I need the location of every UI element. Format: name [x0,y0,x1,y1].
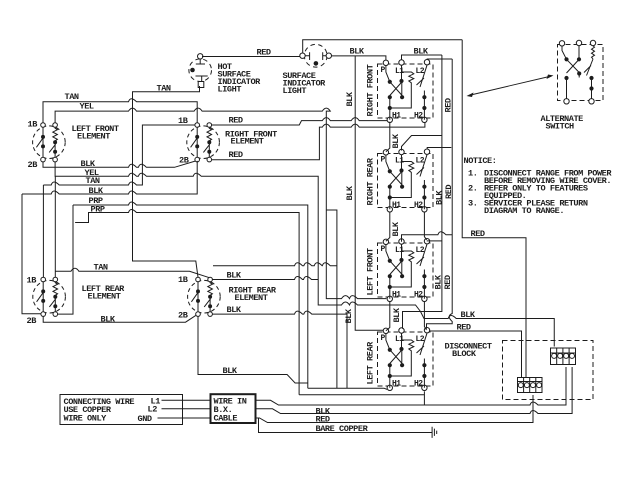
wire TAN 1B left front to 1B right front [43,99,197,123]
label LEFT FRONT ELEMENT [72,124,119,142]
svg-text:ELEMENT: ELEMENT [77,132,110,142]
switch RIGHT FRONT [378,60,434,123]
label HOT SURFACE INDICATOR LIGHT [218,62,262,95]
svg-text:1B: 1B [178,275,188,285]
svg-text:2B: 2B [28,160,38,170]
wire right rear T wire [212,277,318,280]
svg-text:PRP: PRP [91,205,105,215]
svg-text:1.: 1. [468,169,477,179]
wire P right rear riser to red node [386,122,390,152]
svg-text:RED: RED [457,323,471,333]
label ALTERNATE SWITCH [541,114,584,132]
svg-text:YEL: YEL [80,102,94,112]
svg-text:RED: RED [444,98,454,112]
wire BLK vertical right bus [403,55,442,329]
wire in bx cable box [211,394,256,423]
wire BLK to disconnect block [421,312,555,347]
wire BLK vertical bus mid [355,56,383,330]
svg-text:2.: 2. [468,184,477,194]
svg-text:RED: RED [229,150,243,160]
svg-text:LEFT FRONT: LEFT FRONT [366,248,376,295]
svg-text:GND: GND [138,414,152,424]
wire L1 right rear riser [402,136,442,151]
svg-text:TAN: TAN [157,84,171,94]
svg-text:LIGHT: LIGHT [283,86,307,96]
svg-text:TAN: TAN [65,92,79,102]
svg-text:ELEMENT: ELEMENT [235,293,268,303]
connecting wire box [60,395,183,425]
svg-text:RED: RED [229,116,243,126]
svg-text:TAN: TAN [86,176,100,186]
wire top bus down right side [462,40,526,378]
wire vertical left column to left rear T2 [54,176,56,277]
wire stub to vertical 336 [326,210,337,388]
svg-text:RIGHT REAR: RIGHT REAR [366,157,376,205]
svg-text:ELEMENT: ELEMENT [231,136,264,146]
arrow pointing between switch and alternate switch [467,75,554,98]
wire PRP bus second [75,210,299,395]
svg-text:LEFT REAR: LEFT REAR [366,341,376,385]
notice text block [464,156,613,216]
wire RED bottom bus [256,367,573,414]
element LEFT REAR ELEMENT [33,277,66,316]
svg-text:DIAGRAM TO RANGE.: DIAGRAM TO RANGE. [484,206,564,216]
wire H2 left rear down to BLK bottom bus [423,391,425,405]
wire BLK bus second [22,161,197,314]
wire mid horizontal to vertical 336 [213,263,337,266]
svg-text:BLK: BLK [392,307,402,322]
svg-text:BARE COPPER: BARE COPPER [316,424,369,434]
svg-text:BLK: BLK [345,185,355,200]
switch LEFT REAR [378,328,434,391]
label DISCONNECT BLOCK [445,342,492,360]
disconnect block dashed box [503,341,594,400]
element RIGHT REAR ELEMENT [188,277,221,316]
svg-text:BLK: BLK [414,47,429,57]
wire BLK bottom bus [256,367,567,405]
wire bare copper to lower block [256,395,534,423]
wire H2 left front down to left rear L2 node [424,302,426,331]
wire L2 left front riser [427,240,442,242]
svg-text:2B: 2B [178,311,188,321]
svg-text:L2: L2 [148,405,158,415]
svg-text:ELEMENT: ELEMENT [88,292,121,302]
element LEFT FRONT ELEMENT [33,123,66,162]
svg-text:2B: 2B [27,316,37,326]
svg-text:BLK: BLK [227,271,242,281]
svg-text:BLK: BLK [461,310,476,320]
svg-text:BLK: BLK [223,366,238,376]
svg-text:NOTICE:: NOTICE: [464,156,497,166]
svg-text:CABLE: CABLE [214,414,238,424]
svg-text:LIGHT: LIGHT [218,85,242,95]
wire TAN lamp1 down-left and long vertical [133,86,200,277]
wire YEL left front B2 down bus to left rear T2 [55,162,420,312]
element RIGHT FRONT ELEMENT [187,123,220,162]
wire BLK L1 riser right front to vertical bus [402,55,442,60]
svg-text:RED: RED [444,185,454,199]
wire TAN bus [43,125,195,277]
wire L2 right rear riser [427,148,451,150]
indicator lamp SURFACE INDICATOR LIGHT [300,44,332,67]
wire RED lamp to lamp [202,56,300,58]
wire GND link [158,417,211,419]
switch RIGHT REAR [378,149,434,212]
svg-text:WIRE ONLY: WIRE ONLY [64,414,108,424]
label RIGHT FRONT ELEMENT [225,130,277,147]
wire H2 right rear down to RED wire [424,212,426,240]
wire RED right front 1B to H1 of right front switch [212,118,390,125]
ground symbol [432,427,437,438]
wire RED vertical right bus [427,59,453,329]
svg-text:BLK: BLK [434,274,444,289]
svg-text:BLK: BLK [344,308,354,323]
svg-text:RED: RED [443,275,453,289]
svg-text:BLK: BLK [101,315,116,325]
wire TAN left rear T2 branch to right rear [55,268,209,277]
wire lamp2 up and over to right column [303,40,463,53]
svg-text:BLK: BLK [89,186,104,196]
terminal block lower [518,378,543,393]
switch LEFT FRONT [378,239,434,302]
wire L1 left front riser [402,232,453,242]
label RIGHT REAR ELEMENT [229,286,277,304]
wire L2 link [162,408,211,410]
wire right rear B wire [212,311,347,388]
wire BLK lamp2 to P of right front switch [331,56,386,62]
wire L2 riser right front to red vertical bus [427,58,452,61]
indicator lamp HOT SURFACE INDICATOR LIGHT [189,54,212,88]
svg-text:1B: 1B [27,276,37,286]
wire right rear B1 down and over to H1 left rear [198,316,424,394]
wire H1 right rear down to P left front [386,212,390,241]
svg-text:SWITCH: SWITCH [546,122,575,132]
wire YEL riser left front T2 over to mid vertical down to H1 left front [55,108,386,299]
svg-text:RIGHT FRONT: RIGHT FRONT [366,64,376,116]
label SURFACE INDICATOR LIGHT [283,71,327,96]
terminal block upper [551,348,576,365]
wire H1 left front down note [386,302,390,331]
wire BLK left rear B1 to right rear B1 [43,315,196,322]
label LEFT REAR ELEMENT [82,284,126,302]
wire BLK left front B1 to right front B1 [43,161,195,167]
svg-text:1B: 1B [28,119,38,129]
wire BARE COPPER with ground [259,418,433,433]
svg-text:BLK: BLK [227,305,242,315]
wire L1 link [162,399,211,401]
svg-text:BLK: BLK [345,91,355,106]
svg-text:TAN: TAN [94,263,108,273]
svg-text:BLK: BLK [391,221,401,236]
wire PRP bus first [58,202,308,388]
svg-text:BLOCK: BLOCK [452,349,477,359]
svg-text:3.: 3. [468,199,477,209]
svg-text:RED: RED [471,229,485,239]
wire RED to lower terminal block [429,331,521,378]
wire RED right front B2 to H2 of right front switch [212,122,425,160]
svg-text:BLK: BLK [391,133,401,148]
svg-text:RED: RED [257,48,271,58]
alternate switch box [558,40,604,104]
label CONNECTING WIRE USE COPPER WIRE ONLY [64,397,161,425]
svg-text:BLK: BLK [435,190,445,205]
svg-text:BLK: BLK [350,47,365,57]
